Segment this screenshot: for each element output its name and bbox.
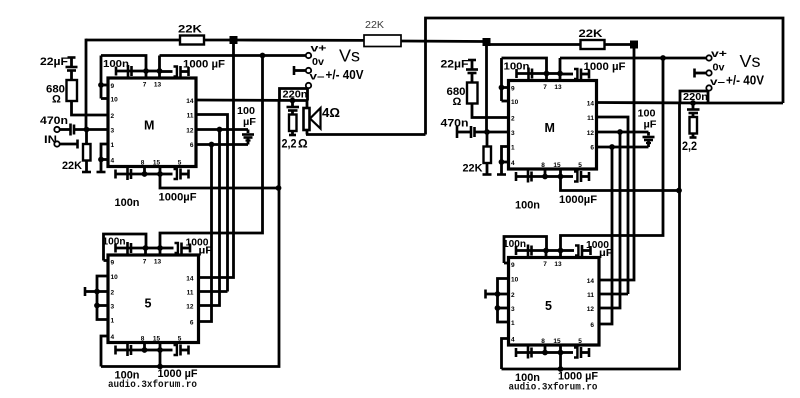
- wire pin 11: [597, 117, 629, 294]
- capacitor CL8 220n (zobel): [287, 101, 300, 115]
- svg-text:4: 4: [111, 158, 115, 165]
- svg-text:1000 µF: 1000 µF: [183, 59, 225, 71]
- svg-text:11: 11: [187, 113, 194, 120]
- svg-text:9: 9: [511, 262, 515, 269]
- junction input node (pin 3): [484, 129, 490, 135]
- junction pin6 bus: [209, 142, 215, 148]
- node S pin7 junction: [143, 245, 149, 251]
- svg-text:M: M: [545, 121, 555, 135]
- wire pin 8 stub: [544, 169, 547, 177]
- capacitor CL3 22uF (feedback shunt): [40, 56, 78, 80]
- svg-text:1000µF: 1000µF: [559, 194, 597, 206]
- svg-text:22K: 22K: [365, 20, 384, 31]
- svg-text:8: 8: [541, 338, 545, 345]
- svg-text:12: 12: [186, 128, 194, 135]
- resistor R5 22K (bridge link): [237, 20, 487, 47]
- wire pin1/pin4 ground bracket: [497, 147, 509, 175]
- junction S pin15 bottom link: [558, 366, 564, 372]
- wire S pin 8 stub: [544, 345, 547, 353]
- svg-text:audio.3xforum.ro: audio.3xforum.ro: [509, 382, 598, 394]
- resistor RR3 22K (input bias): [463, 132, 492, 175]
- junction S pin15 bottom link: [157, 364, 163, 370]
- capacitor CL10 1000uF (slave V+ decoupling): [160, 238, 213, 257]
- svg-text:3: 3: [111, 304, 115, 311]
- capacitor CR7 100uF (bootstrap): [638, 109, 657, 148]
- svg-text:8: 8: [141, 336, 145, 343]
- wire pin 14 output: [597, 101, 709, 104]
- capacitor CR2 1000uF (V+ decoupling): [560, 61, 626, 80]
- svg-text:µF: µF: [243, 117, 256, 128]
- wire V- terminal to output line (220n box): [680, 91, 708, 103]
- svg-text:3: 3: [511, 130, 515, 137]
- wire pin 12: [597, 131, 649, 134]
- capacitor CR4 470n (input): [441, 118, 509, 139]
- wire V+ rail: [560, 57, 707, 60]
- wire rail corner down to input node: [85, 39, 88, 130]
- wire pin 13 stub: [158, 71, 161, 78]
- junction pin12 bus: [217, 127, 223, 133]
- svg-text:100: 100: [638, 109, 656, 120]
- svg-text:15: 15: [553, 338, 561, 345]
- svg-text:2: 2: [511, 292, 515, 299]
- svg-text:9: 9: [111, 260, 115, 267]
- wire rail right of RR1: [605, 43, 635, 46]
- capacitor CR8 220n (zobel): [687, 103, 700, 117]
- pin numbers UL2: [111, 259, 194, 343]
- svg-text:22µF: 22µF: [40, 56, 68, 68]
- capacitor CL9 100n (slave V+ decoupling): [103, 237, 146, 255]
- wire pin 8 stub: [143, 167, 146, 175]
- junction S pin 3: [495, 305, 501, 311]
- wire S input chain (pins 10,2,3,1): [97, 276, 108, 320]
- svg-text:100n: 100n: [115, 197, 140, 209]
- wire pin8-pin15 link: [545, 175, 561, 178]
- wire S pin8-pin15 link: [145, 349, 161, 352]
- svg-text:100n: 100n: [503, 239, 526, 250]
- junction input node (pin 3): [84, 127, 90, 133]
- capacitor CL12 1000uF (slave V- decoupling): [158, 345, 198, 381]
- capacitor CR5 100n (V- decoupling): [515, 171, 545, 212]
- wire pin1/pin4 ground bracket: [97, 144, 109, 172]
- wire S pin15 down to bottom link: [559, 353, 562, 370]
- op-amp IC UR1 'M' (master power amp): [509, 81, 597, 170]
- junction pin 8: [142, 171, 148, 177]
- svg-text:14: 14: [587, 101, 595, 108]
- wire S pin7-pin13 link: [146, 247, 161, 250]
- svg-text:1000µF: 1000µF: [159, 192, 197, 204]
- svg-text:13: 13: [554, 261, 562, 268]
- resistor RR2 680: [447, 83, 478, 109]
- svg-text:100n: 100n: [103, 59, 129, 70]
- resistor RL2 680: [46, 80, 77, 106]
- capacitor CR11 100n (slave V- decoupling): [515, 347, 545, 385]
- wire S bracket top: [104, 234, 147, 261]
- wire pin 15 stub: [159, 167, 162, 175]
- wire V- terminal to output line (220n box): [280, 89, 308, 101]
- resistor RR4 2,2 (zobel): [682, 117, 697, 153]
- wire pin 11: [196, 115, 228, 292]
- wire S input stub: [486, 290, 498, 299]
- wire bus F output/V- link down: [101, 101, 279, 367]
- svg-text:audio.3xforum.ro: audio.3xforum.ro: [108, 379, 197, 391]
- svg-text:5: 5: [578, 162, 582, 169]
- wire S pin 4 to bottom link: [502, 339, 509, 370]
- svg-text:+/- 40V: +/- 40V: [326, 68, 365, 82]
- wire S pin 8 stub: [143, 343, 146, 351]
- wire 680 bottom to pin 2: [472, 104, 509, 118]
- node S pin13 junction: [558, 248, 564, 254]
- svg-text:0v: 0v: [312, 56, 324, 68]
- wire bus B pin12 to S pin12: [199, 130, 220, 306]
- svg-text:Vs: Vs: [740, 51, 761, 71]
- svg-text:10: 10: [511, 99, 519, 106]
- svg-text:5: 5: [578, 338, 582, 345]
- wire pin7-pin13 link: [146, 70, 160, 73]
- svg-text:12: 12: [587, 306, 595, 313]
- terminal 0V supply: [294, 56, 324, 75]
- svg-text:14: 14: [587, 278, 595, 285]
- svg-text:2: 2: [111, 290, 115, 297]
- svg-text:8: 8: [541, 162, 545, 169]
- resistor RL4 2,2 (zobel): [282, 115, 309, 151]
- svg-text:µF: µF: [644, 120, 657, 131]
- junction pin12 bus: [617, 129, 623, 135]
- junction bridge link / right input: [483, 38, 491, 46]
- node S pin13 junction: [157, 245, 163, 251]
- resistor RL1 22K (feedback): [178, 24, 204, 45]
- wire S pin7-pin13 link: [546, 249, 561, 252]
- node S pin7 junction: [543, 248, 549, 254]
- svg-text:3: 3: [511, 306, 515, 313]
- svg-text:7: 7: [143, 82, 147, 89]
- junction pin 9 stub: [499, 85, 505, 91]
- wire S pin 15 stub: [559, 345, 562, 353]
- svg-text:7: 7: [543, 84, 547, 91]
- wire pin 13 stub: [559, 74, 562, 81]
- terminal V+ supply: [306, 43, 327, 59]
- svg-text:M: M: [144, 119, 154, 133]
- svg-text:22K: 22K: [463, 163, 483, 175]
- wire S pin8-pin15 link: [545, 351, 561, 354]
- svg-text:13: 13: [154, 259, 162, 266]
- pin numbers UL1: [111, 82, 194, 167]
- capacitor CL4 470n (input): [40, 115, 108, 136]
- wire S pin 11 stub: [599, 293, 628, 296]
- wire S pin 13 stub: [159, 248, 162, 255]
- node pin13/wire junction: [157, 68, 163, 74]
- wire riser pin13 to V+ rail: [158, 56, 161, 72]
- wire pin 10 stub: [502, 100, 509, 103]
- wire S pin 9 stub: [504, 262, 509, 265]
- junction V- link / F drop: [676, 188, 682, 194]
- svg-text:1: 1: [511, 145, 515, 152]
- svg-text:100: 100: [237, 106, 255, 117]
- wire S pin 11 stub: [199, 290, 228, 293]
- svg-text:22K: 22K: [579, 28, 603, 40]
- junction pin 9 stub: [98, 82, 104, 88]
- wire right output to bridge: [708, 102, 783, 105]
- svg-text:10: 10: [511, 277, 519, 284]
- wire pin7-pin13 link: [547, 72, 561, 75]
- capacitor CL11 100n (slave V- decoupling): [115, 344, 145, 382]
- junction zobel tap: [690, 100, 696, 106]
- svg-text:12: 12: [587, 130, 595, 137]
- svg-text:14: 14: [186, 276, 194, 283]
- wire S pin 7 stub: [545, 251, 548, 258]
- op-amp IC UL2 'S' (slave power amp): [108, 255, 199, 343]
- svg-text:5: 5: [545, 299, 552, 313]
- junction pin 8: [542, 174, 548, 180]
- junction S pin 3: [94, 303, 100, 309]
- wire speaker return to bridge: [306, 133, 426, 136]
- svg-text:2,2: 2,2: [682, 139, 697, 153]
- svg-text:v–: v–: [710, 76, 725, 88]
- svg-text:9: 9: [511, 86, 515, 93]
- svg-text:6: 6: [190, 320, 194, 327]
- junction S pin 8: [142, 347, 148, 353]
- op-amp IC UR2 'S' (slave power amp): [509, 258, 600, 346]
- svg-text:4: 4: [511, 160, 515, 167]
- junction rail / slave-out riser: [630, 41, 638, 49]
- svg-text:µF: µF: [599, 248, 613, 259]
- svg-text:14: 14: [186, 98, 194, 105]
- terminal IN ground stub: [44, 134, 78, 149]
- svg-text:Ω: Ω: [453, 96, 462, 108]
- svg-text:100n: 100n: [515, 200, 540, 212]
- junction pin 4 stub: [499, 159, 505, 165]
- wire bus A pin6 to S pin6: [199, 145, 212, 322]
- junction rail / slave-out riser: [230, 36, 238, 44]
- wire bus B pin12 to S pin12: [599, 132, 620, 308]
- op-amp IC UL1 'M' (master power amp): [108, 78, 196, 167]
- svg-text:220n: 220n: [283, 90, 308, 101]
- junction S pin 2: [495, 291, 501, 297]
- svg-text:4Ω: 4Ω: [322, 106, 340, 120]
- wire S pin 9 stub: [104, 259, 109, 262]
- wire bracket top (100n loop): [101, 56, 146, 72]
- capacitor CR1 100n (V+ decoupling): [504, 62, 547, 80]
- svg-text:5: 5: [145, 297, 152, 311]
- wire S input stub: [85, 287, 97, 296]
- svg-text:1: 1: [111, 318, 115, 325]
- wire rail corner down to input node: [485, 43, 488, 132]
- svg-text:7: 7: [543, 261, 547, 268]
- wire pin 6: [597, 146, 649, 149]
- resistor RL3 22K (input bias): [62, 130, 91, 173]
- svg-text:3: 3: [111, 128, 115, 135]
- svg-text:470n: 470n: [441, 118, 469, 130]
- pin numbers UR1: [511, 84, 594, 169]
- wire pin 15 stub: [559, 169, 562, 177]
- resistor RR1 22K (feedback): [579, 28, 605, 49]
- svg-text:Ω: Ω: [52, 94, 61, 106]
- capacitor CL1 100n (V+ decoupling): [103, 59, 146, 77]
- svg-text:6: 6: [190, 142, 194, 149]
- svg-text:100n: 100n: [103, 237, 126, 248]
- wire pin 9 stub: [101, 84, 108, 87]
- capacitor CL7 100uF (bootstrap): [237, 106, 256, 145]
- junction pin6 bus: [609, 144, 615, 150]
- svg-text:22K: 22K: [178, 24, 202, 36]
- wire bus A pin6 to S pin6: [599, 147, 612, 324]
- wire S pin 15 stub: [159, 343, 162, 351]
- wire S pin 13 stub: [559, 251, 562, 258]
- capacitor CR10 1000uF (slave V+ decoupling): [561, 240, 614, 259]
- capacitor CL5 100n (V- decoupling): [115, 168, 145, 209]
- junction zobel tap: [290, 98, 296, 104]
- node pin7/wire junction: [544, 71, 550, 77]
- junction V- link / F drop: [276, 185, 282, 191]
- junction S pin 15: [558, 350, 564, 356]
- wire bracket left (pin9/pin10): [100, 56, 103, 99]
- svg-text:6: 6: [590, 145, 594, 152]
- svg-text:4: 4: [111, 334, 115, 341]
- svg-text:15: 15: [153, 160, 161, 167]
- terminal V+ supply: [706, 48, 727, 61]
- wire bracket left (pin9/pin10): [500, 58, 503, 101]
- junction S pin 2: [94, 289, 100, 295]
- capacitor CR9 100n (slave V+ decoupling): [503, 239, 546, 257]
- capacitor CR12 1000uF (slave V- decoupling): [558, 347, 598, 383]
- wire pin 12: [196, 128, 248, 131]
- svg-text:v–: v–: [310, 71, 325, 83]
- svg-text:1: 1: [511, 320, 515, 327]
- wire S pin 7 stub: [144, 248, 147, 255]
- wire S input chain (pins 10,2,3,1): [498, 279, 509, 323]
- wire pin 6: [196, 143, 248, 146]
- capacitor CL2 1000uF (V+ decoupling): [160, 59, 226, 78]
- wire pin 7 stub: [545, 74, 548, 81]
- svg-text:4: 4: [511, 337, 515, 344]
- wire bus F output/V- link down: [502, 103, 680, 369]
- junction pin 15: [157, 171, 163, 177]
- wire pin15 down to V- link: [160, 174, 279, 188]
- terminal 0V supply: [695, 62, 725, 78]
- svg-text:5: 5: [178, 336, 182, 343]
- wire pin 10 stub: [101, 97, 108, 100]
- svg-text:+/- 40V: +/- 40V: [726, 74, 765, 88]
- wire bus D slave-out riser to S pin14: [599, 45, 634, 281]
- wire bus E V+ to slave section: [160, 56, 263, 249]
- wire riser pin13 to V+ rail: [559, 58, 562, 74]
- wire S pin15 down to bottom link: [159, 350, 162, 367]
- capacitor CR6 1000uF (V- decoupling): [559, 171, 597, 206]
- svg-text:15: 15: [153, 336, 161, 343]
- wire V+ rail: [160, 54, 307, 57]
- svg-text:11: 11: [187, 290, 194, 297]
- svg-text:470n: 470n: [40, 115, 68, 127]
- terminal V- supply: [306, 71, 325, 89]
- wire 680 bottom to pin 2: [72, 101, 109, 115]
- svg-text:µF: µF: [199, 246, 213, 257]
- node pin13/wire junction: [557, 71, 563, 77]
- wire feedback rail to 22K RR1: [487, 43, 581, 46]
- wire S bracket top: [504, 237, 547, 264]
- wire pin 14 output: [196, 99, 308, 102]
- junction V+ rail / supply drop E: [660, 55, 666, 61]
- speaker LS1 4 ohm: [304, 101, 341, 135]
- svg-text:2,2: 2,2: [282, 137, 297, 151]
- svg-text:13: 13: [154, 82, 162, 89]
- svg-text:Vs: Vs: [339, 46, 360, 66]
- svg-text:v+: v+: [711, 48, 727, 60]
- node pin7/wire junction: [143, 68, 149, 74]
- svg-text:100n: 100n: [504, 62, 530, 73]
- wire feedback rail to 22K RL1: [86, 39, 180, 42]
- svg-text:7: 7: [143, 259, 147, 266]
- svg-text:2: 2: [511, 116, 515, 123]
- svg-text:9: 9: [111, 83, 115, 90]
- svg-text:220n: 220n: [683, 92, 708, 103]
- svg-text:13: 13: [554, 84, 562, 91]
- svg-text:v+: v+: [311, 43, 327, 55]
- svg-text:0v: 0v: [713, 62, 725, 74]
- svg-text:11: 11: [587, 115, 594, 122]
- wire pin 9 stub: [502, 86, 509, 89]
- junction S pin 8: [542, 350, 548, 356]
- wire bracket top (100n loop): [502, 58, 547, 74]
- wire rail right of RL1: [204, 39, 234, 42]
- svg-text:6: 6: [590, 322, 594, 329]
- svg-text:2: 2: [111, 113, 115, 120]
- svg-text:15: 15: [553, 162, 561, 169]
- capacitor CR3 22uF (feedback shunt): [441, 59, 479, 83]
- svg-text:22K: 22K: [62, 160, 82, 172]
- junction V+ rail / supply drop E: [260, 53, 266, 59]
- junction S pin 15: [157, 347, 163, 353]
- svg-text:11: 11: [587, 292, 594, 299]
- svg-text:22µF: 22µF: [441, 59, 469, 71]
- wire bus E V+ to slave section: [561, 58, 664, 251]
- wire pin15 down to V- link: [561, 177, 680, 191]
- wire bus D slave-out riser to S pin14: [199, 40, 234, 278]
- svg-text:8: 8: [141, 160, 145, 167]
- svg-text:5: 5: [178, 160, 182, 167]
- svg-text:12: 12: [186, 304, 194, 311]
- junction pin 4 stub: [98, 157, 104, 163]
- capacitor CL6 1000uF (V- decoupling): [159, 169, 197, 204]
- svg-text:10: 10: [111, 97, 119, 104]
- pin numbers UR2: [511, 261, 594, 345]
- svg-text:Ω: Ω: [298, 137, 308, 151]
- svg-text:1: 1: [111, 142, 115, 149]
- terminal V- supply: [706, 76, 725, 91]
- svg-text:10: 10: [111, 274, 119, 281]
- wire S pin 4 to bottom link: [101, 336, 108, 367]
- wire pin 7 stub: [145, 71, 148, 78]
- svg-text:1000 µF: 1000 µF: [584, 61, 626, 73]
- wire bridge top link: [426, 18, 784, 135]
- junction pin 15: [558, 174, 564, 180]
- wire pin8-pin15 link: [145, 173, 161, 176]
